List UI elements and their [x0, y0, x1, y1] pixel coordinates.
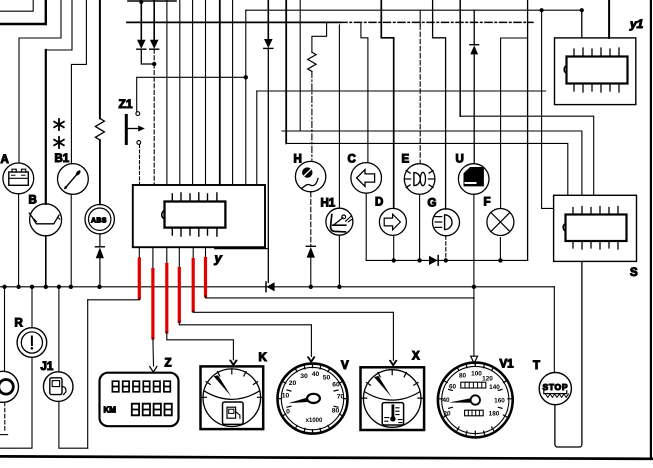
switch Z1: [126, 112, 145, 145]
diode D8 inline left-pointing on bus287: [266, 282, 275, 292]
svg-text:G: G: [428, 198, 437, 210]
lamp H1 circle (seat): [326, 208, 353, 235]
bus y287 main: [0, 286, 554, 288]
svg-text:80: 80: [459, 373, 467, 380]
wire red stub 6 black top: [205, 247, 207, 259]
wire E feed: [419, 10, 421, 25]
arrow into X: [390, 361, 397, 367]
svg-text:50: 50: [323, 375, 331, 382]
wire red stub 3 black top: [166, 247, 168, 265]
display Z: [100, 373, 179, 427]
svg-text:120: 120: [482, 376, 493, 383]
wire red stub 5 black top: [192, 247, 194, 260]
node dot E on bus260: [417, 258, 421, 262]
diode D6: [306, 246, 315, 257]
lamp G circle (low beam): [433, 209, 460, 236]
svg-text:D: D: [375, 197, 383, 209]
wire resistor to ABS: [99, 140, 101, 204]
bus horizontal y131 to S box: [282, 131, 582, 195]
wire box pin 5: [192, 0, 194, 185]
wire G bottom to bus260 dashed: [445, 236, 447, 261]
IC U-y1: [564, 48, 627, 92]
wire thick vertical to y143: [285, 0, 287, 143]
svg-text:ABS: ABS: [91, 218, 107, 225]
wire jog into B feed: [46, 0, 72, 50]
svg-text:V: V: [341, 360, 349, 372]
wire V1 feed vertical: [473, 287, 475, 356]
bus horizontal y10: [246, 9, 582, 11]
lamp R circle: [17, 328, 47, 358]
wire ABS to diode to bus: [99, 234, 101, 287]
svg-text:20: 20: [443, 411, 451, 418]
wire top-left thin L: [0, 0, 33, 11]
wire D feed jog (thick): [381, 0, 393, 208]
lamp E circle (high beam): [404, 164, 435, 195]
wire left lamp feed: [4, 287, 6, 372]
wire vertical to y131: [299, 0, 301, 131]
bus horizontal y22 dash-dot right part: [340, 21, 533, 23]
node pin9 dot: [244, 75, 248, 79]
diode D7 inline right-pointing on bus260: [429, 256, 438, 266]
svg-text:H: H: [294, 154, 302, 166]
wire bus to R: [31, 287, 33, 328]
wire R2 to lamp H (dash-dot): [311, 71, 313, 161]
gauge V tachometer: [278, 364, 348, 434]
wire red stub 4 black top: [178, 247, 180, 269]
wire H to diode D6 (dashed): [310, 192, 312, 246]
wire D3 down to bus diode: [267, 48, 269, 282]
wire red 1: [138, 259, 141, 298]
svg-text:70: 70: [337, 394, 345, 401]
gauge V1 speedometer: [438, 363, 513, 438]
gauge B1 circle: [58, 164, 89, 195]
lamp H circle (temperature): [295, 161, 325, 191]
svg-text:J1: J1: [41, 361, 54, 373]
svg-text:x1000: x1000: [306, 418, 323, 424]
wire red 6: [204, 259, 207, 296]
wire red5 to X feed: [193, 311, 393, 361]
node dot F on bus260: [498, 258, 502, 262]
wire D2 junction to box pin 2 (dashed): [153, 49, 155, 185]
svg-text:0: 0: [286, 409, 290, 416]
node dot G on bus260: [444, 258, 448, 262]
arrow into K: [230, 360, 237, 366]
wire thick feed to B: [45, 50, 47, 204]
svg-text:60: 60: [449, 384, 457, 391]
wire T feed from bus: [553, 287, 555, 373]
wire D1 to junction: [141, 49, 154, 64]
wire box pin 4: [179, 0, 181, 185]
wire box pin 9: [245, 10, 247, 185]
svg-text:60: 60: [332, 382, 340, 389]
wire red6 to V1 feed: [206, 296, 475, 298]
node dot x582 on y10: [580, 8, 584, 12]
svg-text:S: S: [630, 267, 638, 279]
wire B1 to bus: [70, 194, 72, 286]
diode D3: [264, 39, 273, 48]
svg-text:y: y: [214, 251, 223, 266]
wire x541 to S box left: [542, 10, 554, 208]
svg-text:T: T: [533, 360, 540, 372]
wire box pin 10 from y91 line: [256, 91, 258, 185]
resistor R1: [95, 118, 104, 140]
arrow into V1: [471, 356, 478, 363]
wire red 2: [151, 270, 154, 339]
wire F top jog: [501, 38, 528, 208]
resistor R2: [308, 52, 316, 71]
diode D5: [95, 247, 104, 258]
wire U feed: [473, 10, 475, 45]
wire red1 to J1 return (left, down): [88, 298, 140, 300]
bus horizontal y116 to S box: [460, 116, 594, 195]
diode D4: [470, 45, 479, 55]
digits odometer top row: [112, 381, 170, 392]
box S: [554, 195, 637, 261]
lamp B circle (oil): [29, 204, 61, 236]
bottom heavy line: [0, 456, 653, 458]
wire C feed jog: [361, 22, 368, 162]
lamp A circle (battery): [3, 163, 34, 194]
node top junction dot: [139, 0, 143, 4]
lamp U circle (door): [458, 164, 489, 195]
lamp C circle (left arrow): [351, 163, 382, 194]
wire E bottom to bus260: [419, 195, 421, 261]
wire x609 into y1 box (thick): [608, 0, 610, 38]
wire thick ABS/resistor feed: [99, 0, 101, 118]
wire left lamp bottom dashed: [4, 402, 6, 432]
asterisk mark 2: [54, 137, 64, 148]
digits odometer bottom row: [132, 404, 172, 416]
wire red4 to V feed: [179, 321, 311, 356]
wire red stub 1 black top: [138, 247, 140, 260]
wire red 4: [178, 269, 181, 322]
svg-text:Z1: Z1: [119, 97, 133, 111]
lamp F circle (x lamp): [487, 209, 514, 236]
wire red stub 2 black top: [152, 247, 154, 270]
svg-text:160: 160: [494, 398, 505, 405]
svg-text:R: R: [15, 318, 24, 330]
wire T bottom U-turn to S box: [555, 262, 582, 448]
wire B to bus: [45, 236, 47, 287]
node diode junction dot: [152, 62, 156, 66]
arrow into Z: [150, 367, 157, 373]
svg-text:B1: B1: [55, 153, 70, 165]
wire top-left thick L: [0, 0, 46, 24]
wire red 3: [165, 265, 168, 333]
svg-text:U: U: [456, 154, 464, 166]
svg-text:180: 180: [489, 411, 500, 418]
lamp ABS circle: [85, 205, 114, 234]
svg-text:140: 140: [489, 384, 500, 391]
wire stair to lamp A: [19, 0, 61, 163]
wire B1 feed jog: [71, 0, 86, 163]
bus horizontal y22: [127, 21, 340, 23]
wire top edge stub: [128, 0, 176, 2]
wire H1 feed: [338, 25, 340, 208]
svg-text:E: E: [402, 154, 410, 166]
wire D6 to bus: [310, 258, 312, 287]
node dot x541 on y10: [540, 8, 544, 12]
wire long vertical to bus260 right end: [527, 0, 529, 260]
wire U bottom through bus260 to bus287: [473, 195, 475, 287]
svg-text:80: 80: [332, 408, 340, 415]
wire right edge vertical: [650, 0, 652, 457]
wire bus to J1: [58, 287, 60, 372]
svg-text:F: F: [484, 197, 491, 209]
svg-text:30: 30: [300, 373, 308, 380]
wire C bottom to bus260 corner: [365, 193, 367, 260]
svg-text:K: K: [259, 352, 268, 364]
wire resistor R2 top jog: [312, 22, 327, 52]
wire y-box bottom pin jog to bus: [215, 247, 268, 248]
diode D2: [150, 0, 159, 49]
lamp T circle (stop): [539, 373, 571, 405]
asterisk mark 1: [54, 119, 64, 130]
bus horizontal y91: [257, 90, 546, 92]
wire diode D3 branch: [267, 0, 269, 39]
wire F bottom to bus260: [499, 238, 501, 261]
diode D1: [137, 0, 146, 49]
node dot D on bus260: [392, 258, 396, 262]
bus horizontal y143 to S box: [286, 143, 568, 195]
wire Z1 top contact feed: [137, 77, 245, 111]
wire H1 bottom to bus: [338, 235, 340, 286]
wire R bottom to bottom-left corner: [0, 357, 32, 448]
wire red3 to K feed: [167, 332, 234, 360]
wire red 5: [192, 260, 195, 311]
wire box pin 3: [166, 0, 168, 185]
IC U-S: [563, 207, 626, 250]
IC U-y: [162, 193, 226, 236]
wire box pin 6: [205, 0, 207, 185]
lamp J1 circle (fuel): [43, 372, 73, 402]
wire box pin 8: [232, 0, 234, 185]
svg-text:H1: H1: [321, 198, 336, 210]
wire left lamp tick: [0, 434, 8, 436]
wire G feed jog: [433, 0, 446, 209]
svg-text:V1: V1: [500, 359, 515, 371]
node bus287 dots: [2, 285, 476, 289]
svg-text:X: X: [412, 351, 420, 363]
wire D4 to U: [473, 54, 475, 163]
bus y260 with corners: [366, 259, 527, 261]
svg-text:Z: Z: [165, 358, 172, 370]
lamp D circle (right arrow): [379, 208, 406, 235]
svg-text:40: 40: [312, 371, 320, 378]
gauge X box: [361, 367, 425, 430]
svg-text:y1: y1: [629, 17, 644, 31]
wire A to bus: [18, 194, 20, 287]
wire red2 to Z feed: [152, 338, 155, 366]
svg-text:10: 10: [282, 393, 290, 400]
svg-text:STOP: STOP: [543, 382, 568, 392]
wire vertical x460: [459, 0, 461, 116]
svg-text:40: 40: [442, 397, 450, 404]
lamp L1 left edge circle: [0, 371, 19, 402]
wire Z1 bottom contact to box pin 1 (dashed): [139, 145, 141, 186]
wire box pin 7 (thick): [219, 0, 221, 185]
box y (instrument module): [133, 185, 265, 247]
box y1: [555, 38, 636, 105]
svg-text:B: B: [29, 195, 37, 207]
svg-text:A: A: [1, 154, 9, 166]
svg-text:100: 100: [471, 371, 482, 378]
svg-text:KM: KM: [104, 406, 117, 415]
svg-text:C: C: [348, 154, 356, 166]
wire x582 into y1 box: [581, 10, 583, 38]
wire J1 bottom U-turn: [59, 401, 88, 448]
wire E feed dashed: [419, 25, 421, 164]
wire D bottom to bus260: [393, 236, 395, 261]
gauge K box: [201, 366, 264, 429]
wire J1 return vertical: [87, 300, 89, 448]
arrow into V: [308, 357, 315, 363]
svg-text:20: 20: [289, 380, 297, 387]
